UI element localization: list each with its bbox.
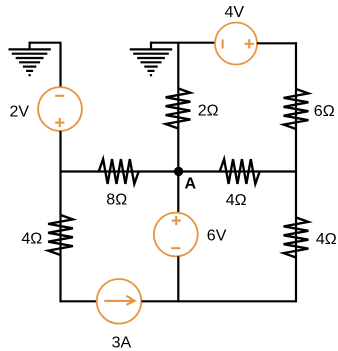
wire bottom rail right (3A to right column) bbox=[142, 300, 298, 302]
wire bottom rail left (to 3A) bbox=[60, 300, 97, 302]
svg-text:6V: 6V bbox=[207, 227, 227, 244]
svg-text:2V: 2V bbox=[10, 104, 30, 121]
ground GND2 (top middle) bbox=[130, 49, 172, 75]
ground GND1 (top left) bbox=[9, 49, 51, 75]
resistor R5 8Ω (middle rail left) bbox=[99, 159, 139, 184]
svg-text:4Ω: 4Ω bbox=[316, 231, 337, 248]
resistor R4 4Ω (left column) bbox=[48, 215, 73, 255]
svg-text:A: A bbox=[185, 176, 197, 193]
svg-text:6Ω: 6Ω bbox=[314, 103, 335, 120]
voltage source V2 4V bbox=[215, 23, 257, 65]
wire left column middle (2V to middle rail and on) bbox=[59, 131, 61, 215]
wire middle rail bbox=[61, 170, 297, 172]
voltage source V1 2V bbox=[38, 87, 82, 131]
wire top-left horizontal bbox=[29, 42, 62, 44]
wire ground1 stub bbox=[29, 42, 31, 50]
wire left column lower bbox=[59, 215, 61, 302]
svg-text:3A: 3A bbox=[112, 335, 132, 351]
svg-text:4Ω: 4Ω bbox=[21, 230, 42, 247]
wire middle column upper (top rail to 6V) bbox=[177, 43, 179, 213]
wire right column lower bbox=[295, 173, 297, 303]
wire ground2 stub bbox=[150, 42, 152, 50]
svg-text:4Ω: 4Ω bbox=[226, 192, 247, 209]
svg-text:2Ω: 2Ω bbox=[198, 103, 219, 120]
wire right column upper bbox=[295, 42, 297, 172]
current source I1 3A bbox=[97, 279, 142, 324]
node A junction dot bbox=[174, 167, 183, 176]
wire left column upper (to 2V) bbox=[59, 43, 61, 87]
resistor R7 4Ω (right column lower) bbox=[284, 218, 309, 258]
wire top rail (4V to right column) bbox=[257, 42, 297, 44]
svg-text:4V: 4V bbox=[225, 4, 245, 21]
svg-text:8Ω: 8Ω bbox=[106, 191, 127, 208]
resistor R2 2Ω (middle column) bbox=[166, 88, 191, 128]
resistor R3 6Ω (right column) bbox=[284, 89, 309, 129]
resistor R6 4Ω (middle rail right) bbox=[220, 159, 260, 184]
wire top rail (ground2 to 4V) bbox=[150, 42, 215, 44]
voltage source V3 6V bbox=[154, 213, 198, 257]
wire middle column lower (6V to bottom rail) bbox=[177, 256, 179, 302]
